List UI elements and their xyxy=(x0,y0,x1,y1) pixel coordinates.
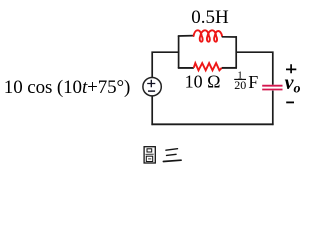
capacitor C1 top plate xyxy=(262,85,282,87)
voltage source VS circle xyxy=(143,78,161,96)
wire: box right vertical xyxy=(235,36,237,68)
wire: box top edge left stub xyxy=(178,35,194,37)
wire: box bottom edge right stub xyxy=(222,67,237,69)
wire: box top edge right stub xyxy=(222,36,237,38)
wire: box left vertical xyxy=(178,36,180,68)
voltage source plus sign xyxy=(147,80,155,88)
wire: box right to capacitor branch top xyxy=(236,52,273,84)
wire: source top to box left (vertical + horizontal) xyxy=(152,52,179,77)
label: capacitor value fraction 1/20 F xyxy=(234,69,258,92)
voltage source minus sign xyxy=(148,90,155,92)
caption: chinese character SAN (three) xyxy=(163,149,181,162)
inductor L1 0.5H coil xyxy=(194,30,223,41)
svg-text:10 cos (10t+75°): 10 cos (10t+75°) xyxy=(4,77,131,98)
capacitor C1 bottom plate xyxy=(262,89,282,91)
wire: capacitor bottom to bottom rail xyxy=(272,91,274,126)
label: output voltage plus xyxy=(286,64,296,73)
resistor R1 zigzag xyxy=(194,63,222,70)
wire: source bottom to bottom rail xyxy=(151,96,153,125)
svg-text:F: F xyxy=(248,72,258,92)
caption: chinese character TU (figure) xyxy=(144,147,155,163)
wire: box bottom edge left stub xyxy=(178,67,194,69)
wire: bottom rail xyxy=(151,123,273,125)
svg-text:10 Ω: 10 Ω xyxy=(185,72,221,92)
label: output voltage minus xyxy=(286,101,294,103)
svg-text:0.5H: 0.5H xyxy=(191,7,229,28)
svg-text:20: 20 xyxy=(234,78,246,92)
